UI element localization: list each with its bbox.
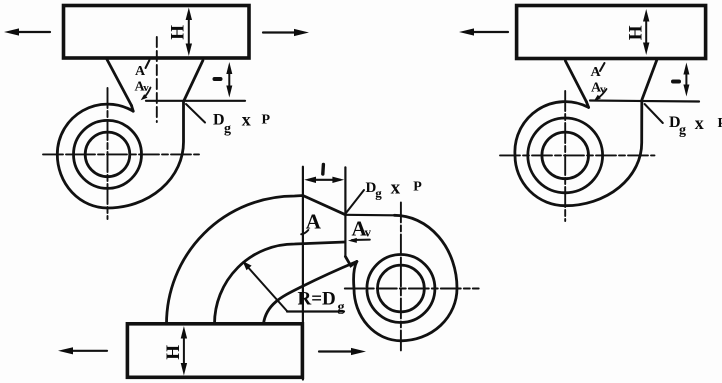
leader arrow Av: [348, 238, 370, 243]
inlet circle middle: [367, 255, 435, 323]
scroll outline (spiral): [354, 215, 457, 340]
elbow outer arc: [167, 196, 346, 325]
svg-text:P: P: [413, 179, 422, 194]
svg-text:A: A: [135, 64, 146, 79]
tongue notch: [586, 102, 588, 108]
leader arrow Av: [594, 89, 607, 101]
label l (rotated): [673, 80, 679, 84]
svg-text:g: g: [338, 300, 345, 315]
label Dg x P: [213, 110, 271, 137]
section line Av (vertical): [344, 167, 346, 256]
dimension l (arrow): [683, 63, 689, 97]
svg-text:H: H: [168, 25, 189, 40]
tongue notch: [132, 106, 134, 112]
duct rectangle: [127, 324, 302, 378]
leader arrow R=Dg: [243, 261, 288, 311]
svg-text:P: P: [262, 113, 271, 128]
svg-text:A: A: [591, 65, 602, 80]
leader line Dg x P: [346, 190, 364, 214]
scroll horizontal centerline: [345, 288, 479, 290]
inlet circle inner: [542, 132, 589, 179]
dimension H (arrow): [181, 326, 187, 376]
scroll horizontal centerline: [500, 154, 655, 156]
tick A': [146, 60, 150, 68]
svg-text:x: x: [391, 178, 401, 199]
transition left slant: [107, 60, 132, 106]
svg-text:g: g: [679, 123, 686, 138]
dimension H (arrow): [643, 9, 649, 55]
tick under A: [301, 230, 308, 234]
centerline (vertical, transition axis): [156, 37, 158, 122]
leader line Dg x P: [186, 104, 205, 123]
transition right slant: [642, 60, 657, 99]
flow arrow left: [4, 28, 50, 35]
dimension H (arrow): [186, 8, 192, 57]
label Av: [135, 79, 150, 94]
section line A (vertical): [302, 167, 304, 380]
svg-text:H: H: [163, 345, 184, 360]
scroll vertical centerline: [564, 91, 566, 221]
tongue notch: [345, 257, 356, 266]
svg-text:x: x: [695, 113, 704, 133]
svg-text:x: x: [242, 110, 251, 130]
label Av: [352, 217, 372, 241]
leader arrow Av: [141, 88, 151, 101]
label Av: [591, 81, 606, 96]
flange line Dg: [146, 100, 245, 102]
label shelf R=Dg: [287, 310, 344, 312]
svg-text:H: H: [626, 25, 647, 40]
flow arrow left: [459, 28, 508, 35]
inlet circle middle: [74, 120, 142, 188]
leader line Dg x P: [645, 104, 663, 123]
duct rectangle: [64, 6, 250, 59]
svg-text:R=D: R=D: [298, 289, 336, 310]
dimension l (arrow): [304, 177, 344, 183]
scroll outline: [57, 102, 183, 209]
transition right slant: [184, 60, 203, 100]
svg-text:D: D: [213, 112, 225, 129]
duct rectangle: [517, 6, 706, 59]
label R=Dg: [298, 289, 345, 316]
scroll horizontal centerline: [43, 153, 199, 155]
inlet circle middle: [528, 118, 603, 193]
label Dg x P: [669, 113, 722, 138]
svg-text:P: P: [718, 116, 722, 131]
scroll vertical centerline: [107, 88, 109, 219]
flow arrow right: [263, 29, 309, 36]
elbow inner arc: [215, 242, 346, 324]
flange line Dg: [590, 101, 699, 102]
svg-text:v: v: [365, 224, 372, 239]
flange top line: [346, 214, 395, 217]
scroll vertical centerline: [400, 202, 402, 353]
label Dg x P: [366, 178, 423, 201]
scroll outline: [515, 101, 642, 206]
label l: [321, 165, 325, 175]
dimension l (arrow): [226, 62, 232, 98]
svg-text:g: g: [224, 121, 231, 136]
flow arrow right: [319, 348, 366, 355]
label l (rotated): [215, 77, 221, 81]
svg-text:g: g: [375, 186, 382, 201]
flow arrow left: [58, 347, 107, 354]
inlet circle inner: [378, 265, 425, 312]
transition left slant: [565, 61, 586, 102]
inlet circle inner: [85, 132, 130, 177]
scroll inner edge to duct: [264, 262, 357, 324]
tick A': [600, 63, 605, 71]
